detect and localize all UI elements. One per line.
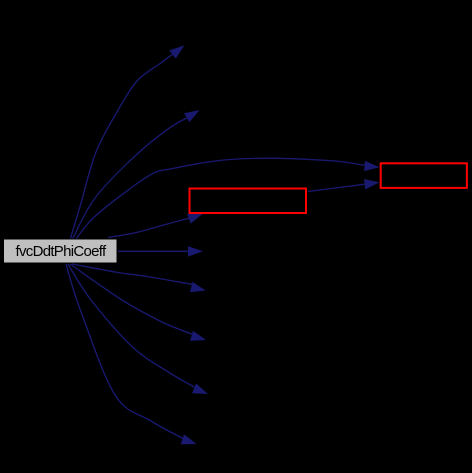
edge: fvcDdtPhiCoeff -> call 6 <box>72 264 206 292</box>
edge: fvcDdtPhiCoeff -> call 3 to right red node <box>76 158 380 239</box>
edge: fvcDdtPhiCoeff -> call 8 <box>68 264 208 394</box>
edge: fvcDdtPhiCoeff -> call 4 to left red node <box>108 214 203 238</box>
svg-text:fvcDdtPhiCoeff: fvcDdtPhiCoeff <box>16 243 108 260</box>
edge: fvcDdtPhiCoeff -> call 2 <box>72 110 200 240</box>
edge: fvcDdtPhiCoeff -> call 9 (bottom) <box>66 264 197 444</box>
node fvcDdtPhiCoeff (root) <box>4 239 118 263</box>
node: left red box (truncated callee) <box>190 189 307 214</box>
edge: fvcDdtPhiCoeff -> call 7 <box>70 264 206 341</box>
edge: left red node to right red node <box>308 179 380 192</box>
edge: fvcDdtPhiCoeff -> call 5 (horizontal) <box>118 246 203 257</box>
edge: fvcDdtPhiCoeff -> call 1 (top) <box>70 45 184 240</box>
node: right red box (truncated callee) <box>381 163 467 188</box>
